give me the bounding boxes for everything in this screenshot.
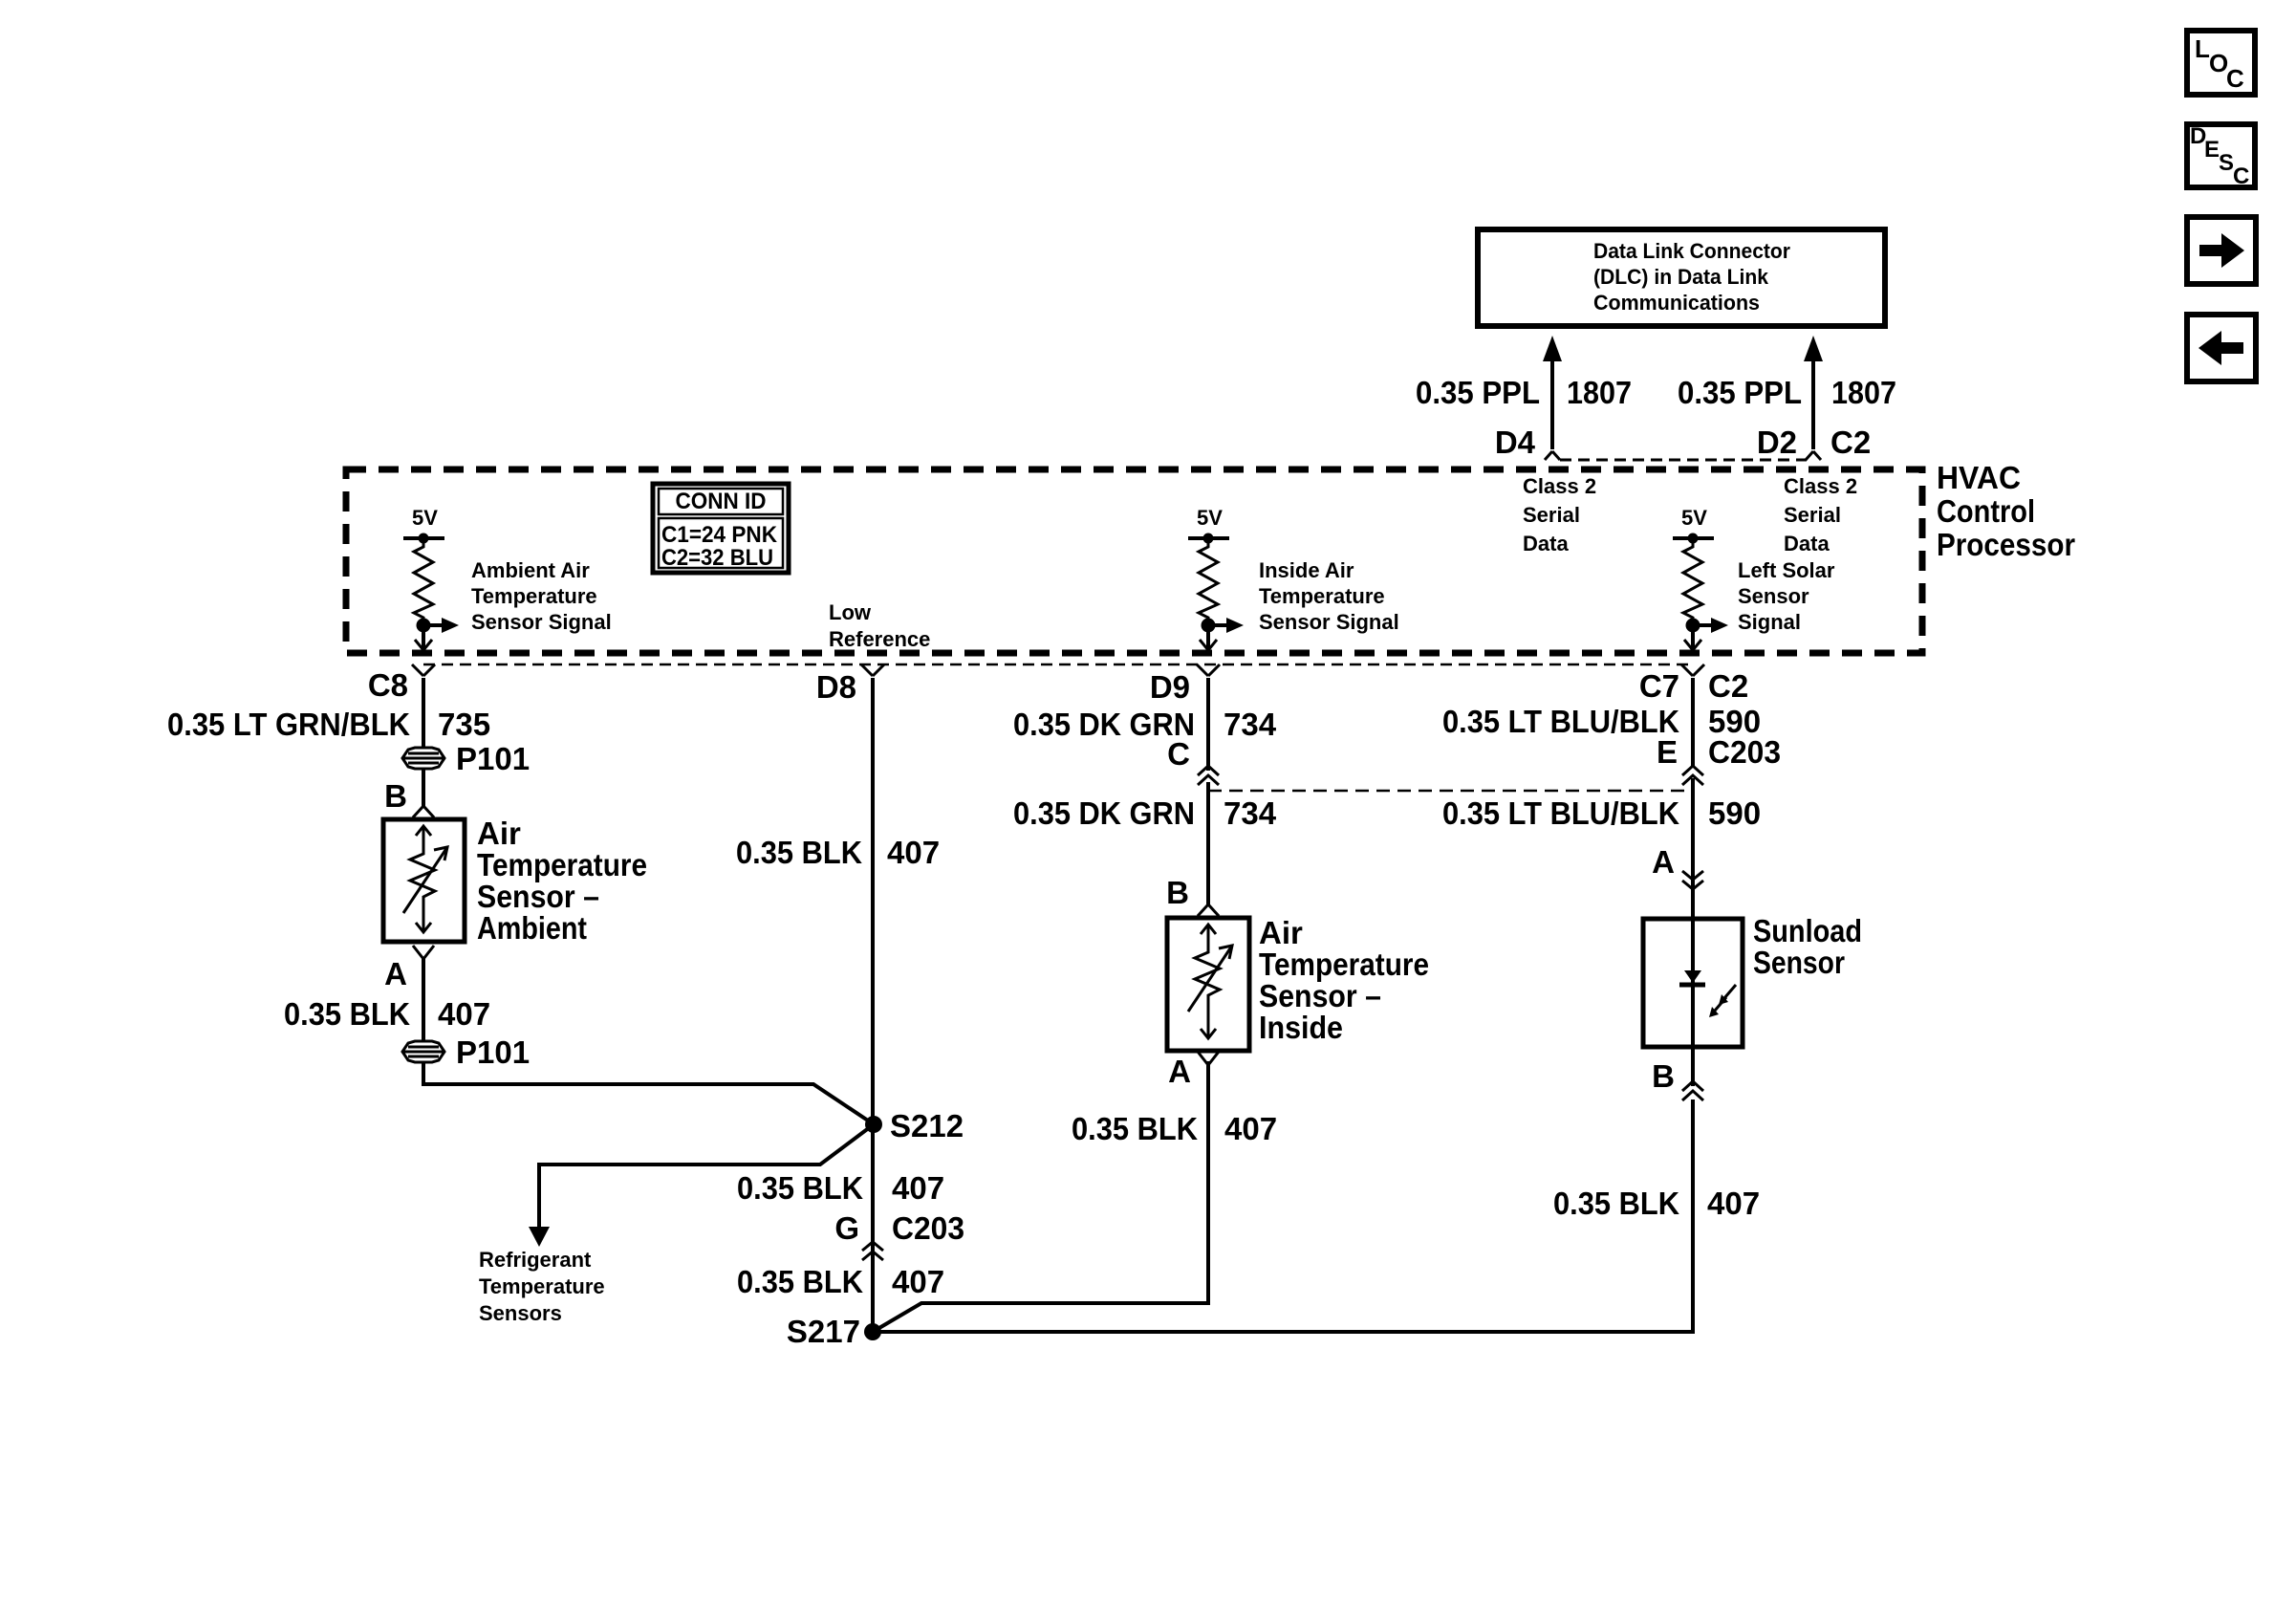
photodiode (sunload) — [1679, 919, 1736, 1047]
connector C203 terminal pin E — [1682, 766, 1703, 785]
svg-text:0.35 DK GRN: 0.35 DK GRN — [1013, 795, 1195, 831]
wire C203 to sunload A — [1691, 778, 1695, 919]
svg-text:Reference: Reference — [829, 627, 930, 651]
svg-text:Signal: Signal — [1738, 610, 1801, 634]
thermistor (ambient) — [403, 826, 447, 932]
Air Temperature Sensor - Inside box — [1167, 918, 1249, 1051]
svg-text:C203: C203 — [892, 1210, 964, 1246]
pull-up resistor inside — [1199, 538, 1218, 625]
wire label 0.35 PPL 1807 (left) — [1416, 375, 1632, 410]
splice S212 — [865, 1116, 882, 1133]
svg-text:Sensor: Sensor — [1738, 584, 1809, 608]
svg-text:Processor: Processor — [1937, 527, 2075, 562]
svg-text:735: 735 — [438, 707, 490, 742]
5V supply inside — [1188, 506, 1229, 544]
connector boundary dashed line (bottom pins) — [423, 664, 1693, 666]
wire label 0.35 LT BLU/BLK 590 (upper) — [1442, 704, 1761, 739]
svg-text:E: E — [1657, 734, 1678, 770]
pin D2 terminal — [1806, 451, 1821, 460]
svg-text:Left Solar: Left Solar — [1738, 558, 1835, 582]
svg-text:1807: 1807 — [1567, 375, 1632, 410]
svg-text:B: B — [384, 778, 407, 814]
Refrigerant Temperature Sensors label — [479, 1248, 605, 1325]
svg-text:0.35 BLK: 0.35 BLK — [737, 1170, 863, 1206]
pin D9 terminal — [1197, 664, 1220, 676]
sunload B in-line terminal — [1682, 1081, 1703, 1100]
splice S217 — [864, 1323, 881, 1340]
svg-text:0.35 BLK: 0.35 BLK — [737, 1264, 863, 1299]
svg-text:Communications: Communications — [1593, 291, 1760, 315]
wire D2/C2 to DLC with arrow — [1804, 336, 1823, 449]
wire S217 to sunload sensor B — [873, 1099, 1693, 1332]
pin A terminal (ambient sensor) — [413, 946, 434, 959]
Data Link Connector box — [1478, 229, 1885, 326]
wire label 0.35 LT GRN/BLK 735 — [167, 707, 490, 742]
wire label 0.35 BLK 407 (sunload) — [1553, 1186, 1760, 1221]
svg-text:Temperature: Temperature — [1259, 947, 1429, 982]
5V supply solar — [1673, 506, 1714, 544]
svg-text:Temperature: Temperature — [477, 847, 647, 882]
pin B terminal (ambient sensor) — [413, 806, 434, 817]
Sunload Sensor box — [1643, 919, 1743, 1047]
svg-text:734: 734 — [1224, 707, 1277, 742]
svg-text:Class 2: Class 2 — [1523, 474, 1596, 498]
svg-text:Class 2: Class 2 — [1784, 474, 1857, 498]
Class 2 Serial Data label (right) — [1784, 474, 1857, 555]
svg-text:Sensor: Sensor — [1753, 945, 1845, 980]
svg-text:A: A — [384, 956, 407, 991]
svg-text:Data: Data — [1523, 532, 1569, 555]
svg-text:0.35 BLK: 0.35 BLK — [284, 996, 410, 1032]
wire sunload B to in-line connector — [1691, 1047, 1695, 1086]
svg-text:C8: C8 — [368, 667, 408, 703]
svg-text:A: A — [1652, 844, 1675, 880]
icon box DESC — [2187, 123, 2255, 189]
wire D9 to C203 — [1206, 678, 1210, 771]
svg-text:C: C — [2233, 163, 2249, 189]
svg-text:C2: C2 — [1708, 668, 1748, 704]
refrigerant branch arrowhead — [529, 1227, 550, 1247]
svg-text:Serial: Serial — [1784, 503, 1841, 527]
icon box LOC — [2187, 31, 2255, 95]
svg-text:C2=32 BLU: C2=32 BLU — [661, 545, 773, 571]
wire label 0.35 BLK 407 (ambient) — [284, 996, 490, 1032]
svg-text:5V: 5V — [412, 506, 438, 530]
svg-text:Data Link Connector: Data Link Connector — [1593, 239, 1790, 263]
node/junction ambient signal — [417, 619, 431, 633]
svg-text:5V: 5V — [1197, 506, 1223, 530]
svg-text:5V: 5V — [1681, 506, 1707, 530]
svg-text:S212: S212 — [890, 1108, 964, 1143]
HVAC Control Processor label — [1937, 460, 2075, 562]
svg-text:Sensor Signal: Sensor Signal — [471, 610, 612, 634]
connector C203 dashed boundary — [1208, 790, 1693, 793]
Air Temperature Sensor - Inside label — [1259, 915, 1429, 1045]
svg-text:CONN ID: CONN ID — [676, 489, 767, 514]
5V supply ambient — [403, 506, 444, 544]
svg-text:(DLC) in Data Link: (DLC) in Data Link — [1593, 265, 1769, 289]
svg-text:Serial: Serial — [1523, 503, 1580, 527]
Ambient Air Temperature Sensor Signal label — [471, 558, 612, 634]
pull-up resistor ambient — [414, 538, 433, 625]
svg-text:Temperature: Temperature — [1259, 584, 1385, 608]
svg-text:Data: Data — [1784, 532, 1830, 555]
svg-text:Sensor –: Sensor – — [477, 879, 599, 914]
pin D8 terminal — [861, 664, 884, 676]
wire P101 to sensor pin B — [422, 769, 425, 808]
svg-text:Air: Air — [1259, 915, 1303, 950]
node/junction inside signal — [1202, 619, 1216, 633]
svg-text:D4: D4 — [1495, 425, 1536, 460]
svg-text:407: 407 — [438, 996, 490, 1032]
wire label 0.35 DK GRN 734 (upper) — [1013, 707, 1277, 742]
svg-text:Sensors: Sensors — [479, 1301, 562, 1325]
pin A terminal (inside sensor) — [1198, 1052, 1219, 1065]
wire P101 lower to S212 — [423, 1062, 874, 1124]
grommet P101 (lower) — [402, 1041, 444, 1062]
wire D4 to DLC with arrow — [1543, 336, 1562, 449]
wire C8 to P101 — [422, 678, 425, 748]
svg-text:Temperature: Temperature — [479, 1274, 605, 1298]
wire label 0.35 LT BLU/BLK 590 (lower) — [1442, 795, 1761, 831]
connector C203 terminal on low reference — [862, 1242, 883, 1260]
svg-text:L: L — [2195, 34, 2210, 63]
svg-text:E: E — [2204, 137, 2220, 163]
svg-text:0.35 BLK: 0.35 BLK — [736, 835, 862, 870]
svg-text:Sensor –: Sensor – — [1259, 978, 1381, 1013]
connector C2 dashed boundary (top) — [1560, 459, 1807, 462]
wire ambient to pin C8 with open arrow — [415, 625, 432, 650]
wire D8 low reference vertical — [871, 678, 875, 1332]
wire solar to pin C7 with open arrow — [1684, 625, 1701, 650]
svg-text:407: 407 — [1224, 1111, 1277, 1146]
Sunload Sensor label — [1753, 913, 1862, 980]
Class 2 Serial Data label (left) — [1523, 474, 1596, 555]
Air Temperature Sensor - Ambient box — [383, 819, 465, 942]
svg-text:HVAC: HVAC — [1937, 460, 2021, 495]
svg-text:0.35 LT GRN/BLK: 0.35 LT GRN/BLK — [167, 707, 410, 742]
Low Reference label — [829, 600, 930, 651]
svg-text:P101: P101 — [456, 1034, 530, 1070]
CONN ID table — [653, 484, 789, 573]
signal tap arrow ambient — [423, 618, 459, 633]
svg-text:0.35 LT BLU/BLK: 0.35 LT BLU/BLK — [1442, 795, 1679, 831]
node/junction solar signal — [1686, 619, 1700, 633]
svg-text:Inside Air: Inside Air — [1259, 558, 1354, 582]
svg-text:590: 590 — [1708, 795, 1761, 831]
svg-text:C1=24 PNK: C1=24 PNK — [661, 522, 778, 548]
wire label 0.35 BLK 407 (inside sensor) — [1072, 1111, 1277, 1146]
HVAC Control Processor dashed box — [346, 469, 1922, 653]
svg-text:Inside: Inside — [1259, 1010, 1343, 1045]
wire label 0.35 BLK 407 (low reference) — [736, 835, 940, 870]
wire inside to pin D9 with open arrow — [1200, 625, 1217, 650]
pin C8 terminal — [412, 664, 435, 676]
Left Solar Sensor Signal label — [1738, 558, 1835, 634]
svg-text:G: G — [834, 1210, 859, 1246]
wire S212 to refrigerant sensors — [539, 1124, 874, 1229]
svg-text:S217: S217 — [787, 1314, 860, 1349]
svg-text:B: B — [1652, 1058, 1675, 1094]
signal tap arrow inside — [1208, 618, 1244, 633]
svg-text:Low: Low — [829, 600, 872, 624]
svg-text:C: C — [2226, 64, 2244, 93]
svg-text:D8: D8 — [816, 669, 856, 705]
svg-text:0.35 LT BLU/BLK: 0.35 LT BLU/BLK — [1442, 704, 1679, 739]
wire C7 to C203 — [1691, 678, 1695, 767]
svg-text:C2: C2 — [1830, 425, 1871, 460]
svg-text:Air: Air — [477, 816, 521, 851]
svg-text:Temperature: Temperature — [471, 584, 597, 608]
svg-text:C7: C7 — [1639, 668, 1679, 704]
svg-text:0.35 PPL: 0.35 PPL — [1416, 375, 1540, 410]
svg-text:407: 407 — [1707, 1186, 1760, 1221]
pin G / connector C203 labels — [834, 1210, 964, 1246]
Air Temperature Sensor - Ambient label — [477, 816, 647, 946]
signal tap arrow solar — [1693, 618, 1728, 633]
svg-text:B: B — [1166, 875, 1189, 910]
Inside Air Temperature Sensor Signal label — [1259, 558, 1399, 634]
pin C7 terminal — [1681, 664, 1704, 676]
svg-text:407: 407 — [892, 1170, 944, 1206]
wire label 0.35 DK GRN 734 (lower) — [1013, 795, 1277, 831]
connector C203 terminal pin C — [1198, 766, 1219, 785]
wire label 0.35 BLK 407 (below S212) — [737, 1170, 944, 1206]
pin B terminal (inside sensor) — [1198, 904, 1219, 916]
svg-text:734: 734 — [1224, 795, 1277, 831]
svg-text:A: A — [1168, 1054, 1191, 1089]
svg-text:D9: D9 — [1150, 669, 1190, 705]
svg-text:Sunload: Sunload — [1753, 913, 1862, 948]
wire label 0.35 PPL 1807 (right) — [1678, 375, 1896, 410]
svg-text:1807: 1807 — [1831, 375, 1896, 410]
svg-text:0.35 BLK: 0.35 BLK — [1072, 1111, 1198, 1146]
svg-text:C: C — [1167, 736, 1190, 772]
svg-text:0.35 BLK: 0.35 BLK — [1553, 1186, 1679, 1221]
wire sensor A to P101 lower — [422, 957, 425, 1041]
svg-text:C203: C203 — [1708, 734, 1781, 770]
svg-text:Ambient Air: Ambient Air — [471, 558, 590, 582]
wire label 0.35 BLK 407 (above S217) — [737, 1264, 944, 1299]
svg-text:S: S — [2219, 150, 2234, 176]
icon box forward arrow — [2187, 217, 2256, 284]
pin D4 terminal — [1545, 451, 1560, 460]
sunload A in-line terminal — [1682, 871, 1703, 889]
svg-text:P101: P101 — [456, 741, 530, 776]
svg-text:Ambient: Ambient — [477, 910, 587, 946]
svg-text:0.35 PPL: 0.35 PPL — [1678, 375, 1802, 410]
wire S217 to inside sensor A — [873, 1061, 1208, 1332]
pull-up resistor solar — [1683, 538, 1702, 625]
icon box back arrow — [2187, 315, 2256, 381]
grommet P101 (upper) — [402, 748, 444, 769]
svg-text:Refrigerant: Refrigerant — [479, 1248, 592, 1272]
svg-text:Sensor Signal: Sensor Signal — [1259, 610, 1399, 634]
thermistor (inside) — [1188, 925, 1232, 1038]
svg-text:407: 407 — [887, 835, 940, 870]
svg-text:Control: Control — [1937, 493, 2035, 529]
svg-text:407: 407 — [892, 1264, 944, 1299]
wire C203 to inside sensor B — [1206, 782, 1210, 904]
svg-text:D2: D2 — [1757, 425, 1797, 460]
